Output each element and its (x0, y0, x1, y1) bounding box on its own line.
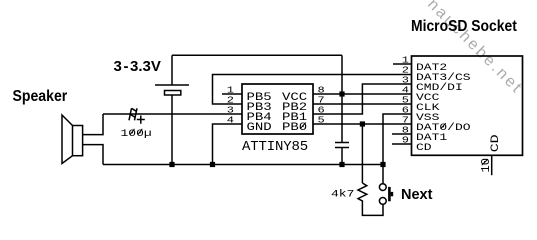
junction PB0 resistor tap (360, 121, 365, 126)
wire resistor bottom to button bottom (362, 204, 383, 216)
IC U1 pin names (247, 90, 308, 133)
wire CD pin9 stub (392, 143, 412, 145)
pushbutton S1 terminal circles (379, 184, 386, 191)
wire GND pin4 riser (213, 124, 243, 165)
svg-text:3-3.3V: 3-3.3V (114, 58, 161, 75)
wire PB4 audio line (103, 113, 242, 115)
battery BT1 positive plate (155, 84, 189, 86)
svg-text:Next: Next (401, 187, 433, 203)
svg-text:8: 8 (402, 125, 409, 136)
IC U2 socket pin names (416, 61, 471, 153)
wire DAT2 pin1 stub (393, 63, 412, 65)
battery BT1 negative plate (165, 91, 181, 96)
wire battery positive to top rail (171, 55, 173, 85)
svg-text:CD: CD (489, 134, 501, 152)
svg-text:3: 3 (227, 105, 234, 116)
wire top VCC rail (172, 54, 342, 56)
wire VSS to ground and button (383, 114, 412, 184)
wire DAT1 pin8 stub (392, 133, 412, 135)
wire VCC rail to decoupling cap (341, 94, 343, 143)
IC U2 socket pin numbers (402, 55, 409, 146)
svg-text:1: 1 (402, 55, 409, 66)
IC U2 MicroSD socket body (412, 56, 523, 155)
slashed zero marks (130, 123, 488, 166)
resistor R1 4k7 lead from PB0 line (361, 124, 363, 183)
capacitor C2 decoupling plates (335, 143, 349, 148)
svg-text:5: 5 (402, 95, 409, 106)
svg-text:4: 4 (402, 85, 409, 96)
svg-text:4: 4 (227, 115, 234, 126)
svg-text:GND: GND (247, 120, 272, 133)
svg-text:4k7: 4k7 (331, 188, 354, 200)
svg-text:8: 8 (318, 85, 325, 96)
svg-text:6: 6 (402, 105, 409, 116)
wire microsd pin10 stub (491, 155, 493, 175)
svg-text:7: 7 (402, 115, 409, 126)
svg-text:10: 10 (479, 158, 493, 172)
wire PB3 to DAT3/CS loop (213, 75, 412, 105)
junction battery negative on ground rail (169, 162, 174, 167)
wire PB1 to CMD/DI riser (313, 84, 412, 114)
svg-text:PB0: PB0 (282, 120, 307, 133)
junction button VSS on ground rail (380, 162, 385, 167)
svg-text:2: 2 (402, 65, 409, 76)
junction GND pin4 on ground rail (210, 162, 215, 167)
IC U1 ATTINY85 body (242, 84, 313, 134)
svg-text:MicroSD Socket: MicroSD Socket (411, 17, 517, 35)
wire ground rail (103, 164, 383, 166)
speaker LS1 driver box (73, 126, 83, 156)
svg-text:2: 2 (227, 95, 234, 106)
svg-text:3: 3 (402, 75, 409, 86)
wire PB2 to CLK (313, 103, 412, 105)
resistor R1 4k7 zigzag (358, 183, 367, 204)
wire PB0 to DAT0/DO (313, 123, 412, 125)
junction decoupling cap on ground rail (339, 162, 344, 167)
junction VCC at pin8 (339, 91, 344, 96)
svg-text:100µ: 100µ (121, 127, 152, 139)
wire VCC pin8 to socket VCC (313, 93, 412, 95)
speaker LS1 cone (62, 115, 73, 164)
wire decoupling cap to ground (341, 148, 343, 165)
wire VCC riser (341, 55, 343, 94)
pushbutton S1 actuator bar (388, 187, 391, 201)
wire speaker top terminal (83, 114, 103, 135)
svg-text:9: 9 (402, 135, 409, 146)
svg-text:5: 5 (318, 115, 325, 126)
svg-text:CD: CD (416, 141, 432, 153)
wire speaker bottom terminal (83, 145, 103, 165)
wire pin1 PB5 stub (222, 93, 242, 95)
capacitor C1 plus sign (137, 116, 145, 124)
IC U1 pin numbers (227, 85, 234, 126)
capacitor C1 100u plates (129, 108, 132, 120)
svg-text:7: 7 (318, 95, 325, 106)
svg-text:ATTINY85: ATTINY85 (242, 139, 308, 155)
svg-text:1: 1 (227, 85, 234, 96)
svg-text:Speaker: Speaker (13, 87, 68, 105)
label 4k7 (331, 188, 354, 200)
wire battery negative down (171, 95, 173, 165)
svg-text:6: 6 (318, 105, 325, 116)
label 100u (121, 127, 152, 139)
